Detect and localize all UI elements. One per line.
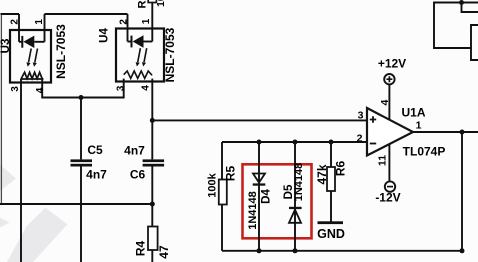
ground symbol — [318, 221, 344, 224]
svg-text:47k: 47k — [315, 164, 329, 184]
svg-text:4: 4 — [141, 85, 152, 91]
svg-text:4: 4 — [379, 100, 391, 106]
svg-text:U4: U4 — [99, 28, 111, 43]
wire left edge vertical (U3 pin2 net) — [0, 14, 2, 204]
node D4 bottom — [257, 248, 262, 253]
wire op-amp pin11 to -12V supply — [388, 144, 390, 181]
diode D5 — [289, 207, 302, 223]
wire R6 column — [330, 142, 332, 222]
watermark band upper-left — [0, 165, 16, 192]
optocoupler U3 — [10, 30, 51, 83]
wire U3 pin1 to U4 pin2 top link — [45, 13, 128, 15]
+12V power symbol — [384, 74, 394, 84]
optocoupler U4 — [116, 29, 164, 82]
svg-text:TL074P: TL074P — [403, 144, 446, 158]
node output junction — [460, 130, 465, 135]
node D5 bottom — [293, 248, 298, 253]
wire U4 pin4 to C6 — [151, 79, 153, 160]
wire +12V supply to op-amp pin4 — [388, 84, 390, 120]
wire op-amp output — [413, 131, 478, 133]
wire D5 column — [294, 142, 296, 251]
svg-text:D4: D4 — [261, 189, 273, 204]
resistor R6 — [327, 167, 335, 191]
node D4 top — [257, 140, 262, 145]
svg-text:GND: GND — [317, 227, 345, 241]
svg-text:1N4148: 1N4148 — [247, 191, 259, 230]
svg-text:11: 11 — [377, 155, 389, 166]
-12V power symbol — [385, 181, 395, 191]
wire R5 column — [221, 142, 223, 251]
svg-text:2: 2 — [357, 133, 363, 145]
svg-text:NSL-7053: NSL-7053 — [163, 27, 177, 82]
resistor R7 top edge (cut off) — [148, 0, 156, 3]
wire U4 pin1 to resistor R7 — [151, 3, 153, 42]
node rail/R4 junction — [150, 202, 155, 207]
resistor R4 — [148, 227, 158, 251]
wire inverting input rail — [222, 141, 367, 143]
wire U4 pin2 drop — [127, 14, 129, 42]
wire top-right block outline — [434, 3, 478, 49]
svg-text:2: 2 — [119, 19, 130, 25]
resistor R5 — [219, 180, 227, 205]
wire D4 column — [258, 142, 260, 251]
wire U3 pin3 down — [20, 79, 22, 262]
svg-text:2: 2 — [9, 19, 20, 25]
svg-text:U1A: U1A — [401, 106, 425, 120]
svg-text:R7: R7 — [137, 0, 149, 9]
svg-text:4n7: 4n7 — [86, 168, 107, 182]
svg-text:C5: C5 — [87, 143, 103, 157]
svg-text:R5: R5 — [224, 166, 238, 182]
svg-text:+12V: +12V — [378, 57, 406, 71]
svg-text:U3: U3 — [0, 39, 12, 54]
svg-text:C6: C6 — [130, 168, 146, 182]
capacitor C6 — [143, 159, 165, 166]
watermark band lower-middle — [7, 208, 67, 262]
svg-text:10k: 10k — [155, 0, 167, 7]
svg-text:47: 47 — [157, 245, 171, 259]
wire C5 bottom down — [80, 166, 82, 262]
node R6 top — [329, 140, 334, 145]
wire U3 pin2 drop — [18, 14, 20, 42]
svg-text:1: 1 — [34, 19, 45, 25]
node U3.4/C5 junction — [79, 95, 84, 100]
diode D4 — [253, 174, 266, 186]
svg-text:1N4148: 1N4148 — [293, 163, 305, 202]
svg-text:4n7: 4n7 — [124, 144, 145, 158]
svg-text:1: 1 — [141, 18, 152, 24]
op-amp U1A — [367, 108, 413, 156]
node feedback bottom junction — [460, 248, 465, 253]
wire bottom feedback rail — [222, 250, 462, 252]
wire feedback vertical — [461, 132, 463, 251]
wire second top-right block outline — [471, 25, 478, 60]
svg-text:3: 3 — [116, 85, 127, 91]
wire C6 bottom through rail to bottom edge — [151, 166, 153, 262]
wire junction to C5 — [80, 98, 82, 160]
red highlight box around D4/D5 — [243, 164, 312, 238]
watermark faint fragment bottom — [0, 218, 10, 228]
svg-text:3: 3 — [10, 86, 21, 92]
wire long left rail — [0, 203, 152, 205]
svg-text:NSL-7053: NSL-7053 — [54, 24, 68, 79]
svg-text:R4: R4 — [134, 241, 148, 257]
svg-text:1: 1 — [416, 120, 422, 132]
svg-text:4: 4 — [35, 87, 46, 93]
node C6/op-amp junction — [150, 118, 155, 123]
svg-text:-12V: -12V — [375, 191, 400, 205]
wire U3 pin4 to U4 pin3 — [42, 79, 124, 98]
wire from top-right junction — [462, 3, 478, 13]
wire to op-amp non-inverting input pin3 — [152, 119, 367, 121]
wire U3 pin1 riser — [44, 14, 46, 42]
node D5 top — [293, 140, 298, 145]
wire top-left horizontal to U3 pin2 — [1, 13, 20, 15]
svg-text:R6: R6 — [334, 161, 348, 177]
svg-text:100k: 100k — [207, 172, 219, 197]
node top-right junction — [459, 0, 464, 5]
capacitor C5 — [71, 159, 93, 166]
svg-text:3: 3 — [358, 110, 364, 122]
